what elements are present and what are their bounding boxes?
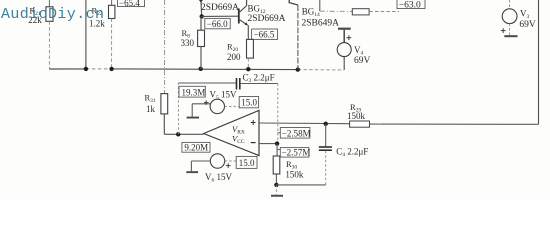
transistor BG14 2SB649A (cut off) leads [289,0,298,70]
junction node on bus x=248.3 [246,67,250,71]
resistor R29 150k horizontal [350,121,370,127]
svg-text:15.0: 15.0 [241,98,257,108]
svg-text:−63.0: −63.0 [399,0,421,10]
readout box -66.5 [252,29,278,40]
node inverting input junction [275,141,279,145]
ground of V5 [187,117,199,119]
svg-text:−66.5: −66.5 [254,30,275,40]
svg-text:R31: R31 [145,93,156,105]
voltage source V3 69V [502,0,517,35]
wire collector branch to resistor at top right [320,0,353,11]
junction node on bus x=200.7 [199,67,203,71]
readout box -66.0 [205,18,230,29]
ground of V3 [504,35,517,37]
voltage source V5 15V [192,99,239,116]
readout box 19.3M [179,86,205,97]
op-amp U1 triangle [204,110,259,155]
transistor T1 (cut off) emitter lead [200,0,203,16]
resistor (horizontal, unlabelled) [352,9,369,15]
label BG14 2SB649A [302,7,340,29]
svg-text:150k: 150k [285,170,304,180]
wire inverting input [259,143,277,145]
junction node on bus x=85.9 [84,67,88,71]
resistor R30 150k [273,144,280,185]
svg-text:330: 330 [181,38,195,48]
svg-text:V5 15V: V5 15V [210,89,238,101]
plus sign of V5 [204,100,209,105]
node R30 bottom [274,183,278,187]
svg-text:−2.58M: −2.58M [282,128,311,138]
svg-text:AudioDiy.cn: AudioDiy.cn [1,6,104,23]
svg-text:200: 200 [227,52,241,62]
label R8 330 [181,28,195,48]
readout box -2.57M [277,148,310,158]
readout box 9.20M [182,142,210,152]
label R22 1.2k [89,6,105,29]
svg-text:V4: V4 [354,45,364,57]
svg-text:15.0: 15.0 [239,158,255,168]
node base of BG12 [200,14,204,18]
voltage source V6 15V [191,154,236,171]
wire right edge vertical to output line [370,0,539,124]
svg-text:2SD669A: 2SD669A [201,3,239,13]
svg-text:1k: 1k [146,104,156,114]
svg-text:2SB649A: 2SB649A [302,18,340,28]
wire long vertical x=164.7 to R31 [164,0,166,94]
svg-text:V6 15V: V6 15V [205,172,233,184]
resistor R21 22k vertical top-left [46,0,53,69]
op-amp minus input marker [251,142,256,144]
wire ground stub [275,185,277,195]
label BG12 2SD669A [248,4,286,25]
readout box -63.0 [397,0,425,10]
wire vertical input net x=86 [85,0,87,69]
plus sign of V6 [226,163,231,168]
svg-text:69V: 69V [519,20,536,30]
transistor BG12 2SD669A [238,0,248,25]
readout box 15.0 (bottom supply) [236,156,257,168]
junction node on bus x=297.8 [296,67,300,71]
wire noninverting input to R29 [259,122,350,125]
readout box -65.4 [118,0,145,8]
resistor R20 200 (emitter of BG12) [247,25,254,69]
junction node on bus x=111.6 [109,67,113,71]
svg-text:C3 2.2μF: C3 2.2μF [243,72,275,84]
svg-text:V3: V3 [520,9,530,21]
resistor R22 1.2k vertical [109,0,115,69]
voltage source V4 69V [337,28,351,70]
label V4 69V [354,45,371,66]
svg-text:−2.57M: −2.57M [282,148,311,158]
wire from resistor to -63.0 box [369,11,399,13]
label R30 150k [285,159,304,180]
svg-text:69V: 69V [354,56,371,66]
svg-text:−65.4: −65.4 [119,0,140,8]
label R31 1k [145,93,156,115]
svg-text:C4 2.2μF: C4 2.2μF [336,146,368,158]
resistor R8 330 [198,16,205,69]
svg-text:9.20M: 9.20M [184,143,208,153]
svg-text:150k: 150k [347,111,366,121]
wire bottom net R30 to C4 [276,184,325,186]
capacitor C4 2.2uF [319,124,332,185]
plus sign of V4 [347,35,352,40]
label R21 22k [28,6,42,26]
wire base of BG12 [202,15,238,17]
svg-text:−66.0: −66.0 [207,19,228,29]
plus sign of V3 [501,28,506,33]
ground of V6 [186,171,198,173]
ground bar [271,195,283,197]
wire feedback up and over to C3 [178,83,236,134]
main bus wire y=69 [49,69,343,70]
svg-text:2SD669A: 2SD669A [248,14,286,24]
node op-amp output feedback tap [176,132,180,136]
readout box 15.0 (top supply) [239,97,258,108]
readout box -2.58M [278,128,311,139]
label R29 150k [347,102,366,121]
svg-text:BG14: BG14 [302,7,320,19]
wire C3 right down to inverting input [277,84,279,144]
node C4 tap on output line [324,122,328,126]
svg-text:19.3M: 19.3M [182,87,206,97]
label V3 69V [519,9,536,31]
capacitor C3 2.2uF [237,78,278,90]
op-amp plus input marker [251,120,256,125]
resistor R31 1k [161,94,204,135]
label R20 200 [227,42,241,63]
